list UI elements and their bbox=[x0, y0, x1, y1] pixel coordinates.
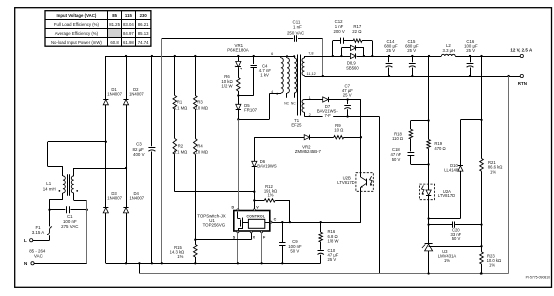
wire transformer pin4 to drain bbox=[238, 94, 281, 120]
diode D2 1N4007 bbox=[123, 56, 144, 168]
svg-text:5.1 MΩ: 5.1 MΩ bbox=[174, 105, 188, 110]
terminal L bbox=[24, 238, 50, 244]
svg-text:1%: 1% bbox=[177, 254, 183, 259]
svg-text:R2: R2 bbox=[178, 144, 184, 149]
svg-text:25 V: 25 V bbox=[466, 48, 475, 53]
svg-text:ZMM5245B-7: ZMM5245B-7 bbox=[295, 149, 322, 154]
svg-text:N: N bbox=[24, 261, 28, 267]
svg-text:Input Voltage (VAC): Input Voltage (VAC) bbox=[57, 13, 97, 18]
svg-text:4: 4 bbox=[271, 90, 273, 94]
svg-text:10 MΩ: 10 MΩ bbox=[196, 105, 208, 110]
inductor L2 3.3uH bbox=[441, 43, 455, 56]
svg-text:85.13: 85.13 bbox=[138, 31, 149, 36]
pin D bbox=[232, 206, 239, 211]
wire choke left top to bridge AC1 bbox=[48, 142, 106, 177]
svg-text:3.15 A: 3.15 A bbox=[32, 230, 45, 235]
resistor R15 14.3k bbox=[170, 240, 197, 264]
capacitor C1 bbox=[50, 206, 88, 229]
svg-text:Average Efficiency (%): Average Efficiency (%) bbox=[55, 31, 99, 36]
svg-text:1N4007: 1N4007 bbox=[129, 91, 144, 96]
svg-text:230: 230 bbox=[140, 13, 148, 18]
wire Y-cap to secondary RTN bbox=[322, 39, 324, 77]
primary ground bus wire bbox=[106, 262, 321, 264]
wire U3 ref to divider bbox=[429, 245, 483, 247]
diode D7 BAV21WS bbox=[304, 97, 361, 118]
capacitor C15 680uF bbox=[405, 39, 419, 76]
svg-text:1/2 W: 1/2 W bbox=[221, 84, 233, 89]
wire drain bbox=[238, 119, 240, 209]
diode D1 1N4007 bbox=[103, 56, 122, 142]
capacitor C10 47uF bbox=[318, 242, 339, 263]
svg-text:PI-5775-090810: PI-5775-090810 bbox=[526, 276, 550, 280]
svg-text:74.74: 74.74 bbox=[138, 40, 149, 45]
resistor R19 470 ohm bbox=[427, 121, 446, 165]
svg-text:NC: NC bbox=[291, 102, 296, 106]
svg-text:1 nF: 1 nF bbox=[293, 25, 302, 30]
capacitor C20 33nF bbox=[429, 222, 482, 242]
RTN rail wire bbox=[304, 75, 521, 77]
snubber C12 R17 bbox=[333, 19, 373, 56]
svg-text:1 kV: 1 kV bbox=[260, 72, 269, 77]
capacitor C4 4.7nF 1kV bbox=[238, 56, 271, 96]
shunt regulator U3 LMV431A bbox=[422, 225, 457, 274]
pin F bbox=[261, 231, 266, 263]
wire R1-R2 bbox=[174, 109, 176, 139]
wire bias return pin2 bbox=[304, 117, 379, 274]
resistor R16 6.8 ohm bbox=[319, 222, 339, 243]
svg-text:12 V, 2.5 A: 12 V, 2.5 A bbox=[510, 48, 533, 53]
svg-text:No-load Input Power (mW): No-load Input Power (mW) bbox=[51, 40, 102, 45]
svg-text:C: C bbox=[274, 218, 277, 222]
svg-text:25 V: 25 V bbox=[407, 48, 416, 53]
svg-text:22 Ω: 22 Ω bbox=[352, 29, 362, 34]
capacitor C3 bbox=[133, 56, 156, 263]
svg-text:L: L bbox=[24, 238, 27, 244]
wire choke right bottom to N bbox=[74, 193, 87, 263]
svg-text:25 V: 25 V bbox=[386, 48, 395, 53]
svg-text:FR107: FR107 bbox=[244, 108, 258, 113]
HV+ rail wire bbox=[106, 55, 295, 57]
svg-text:1N4007: 1N4007 bbox=[107, 196, 122, 201]
optocoupler U2A LTV817D bbox=[420, 164, 456, 273]
svg-text:275 VAC: 275 VAC bbox=[61, 224, 78, 229]
svg-text:50 V: 50 V bbox=[452, 236, 461, 241]
svg-text:83.04: 83.04 bbox=[123, 22, 134, 27]
svg-text:14 mH: 14 mH bbox=[43, 186, 56, 191]
svg-text:R4: R4 bbox=[197, 144, 203, 149]
wire secondary return lower bus bbox=[139, 76, 508, 275]
svg-text:RTN: RTN bbox=[518, 81, 527, 86]
resistor R6 10k 1/2W bbox=[221, 74, 240, 104]
TVS VR1 P6KE180A bbox=[227, 43, 249, 78]
wire choke right top to bridge AC2 bbox=[74, 168, 127, 176]
diode D5 FR107 bbox=[236, 103, 258, 120]
diode D3 1N4007 bbox=[103, 191, 122, 263]
svg-text:1N4007: 1N4007 bbox=[129, 196, 144, 201]
pin C bbox=[270, 218, 277, 223]
svg-text:1/8 W: 1/8 W bbox=[328, 238, 339, 243]
diode D4 1N4007 bbox=[123, 191, 144, 263]
svg-text:CONTROL: CONTROL bbox=[247, 214, 266, 218]
efficiency table bbox=[45, 11, 151, 47]
pin S bbox=[233, 231, 239, 263]
pin X bbox=[194, 231, 255, 241]
svg-text:LL4148: LL4148 bbox=[444, 168, 459, 173]
fuse F1 bbox=[32, 210, 52, 240]
node AC2 bbox=[125, 167, 127, 207]
node AC1 bbox=[105, 141, 107, 208]
svg-text:R1: R1 bbox=[177, 99, 183, 104]
wire feedback from 12V rail bbox=[427, 56, 429, 122]
svg-text:7-F: 7-F bbox=[325, 113, 332, 118]
svg-text:470 Ω: 470 Ω bbox=[434, 146, 445, 151]
terminal 12V output bbox=[510, 48, 533, 58]
svg-text:Full Load Efficiency (%): Full Load Efficiency (%) bbox=[54, 22, 100, 27]
svg-text:1%: 1% bbox=[444, 258, 450, 263]
IC U1 TOPSwitch-JX TOP256VG bbox=[197, 211, 270, 232]
svg-text:NC: NC bbox=[284, 102, 289, 106]
svg-text:6: 6 bbox=[271, 52, 273, 56]
svg-text:TOP256VG: TOP256VG bbox=[203, 223, 226, 228]
resistor R9 10 ohm bbox=[334, 123, 361, 139]
resistor R21 86.6k bbox=[480, 56, 503, 226]
svg-text:1%: 1% bbox=[490, 169, 496, 174]
svg-text:50 V: 50 V bbox=[290, 248, 299, 253]
svg-text:25 V: 25 V bbox=[343, 92, 352, 97]
wire L to choke bbox=[48, 199, 63, 211]
svg-text:1%: 1% bbox=[489, 263, 495, 268]
diode D8 SB560 parallel bbox=[341, 45, 364, 70]
wire line-sense to V pin bbox=[175, 191, 256, 193]
optocoupler U2B LTV817D bbox=[337, 137, 373, 222]
svg-text:1N4007: 1N4007 bbox=[107, 91, 122, 96]
svg-text:115: 115 bbox=[125, 13, 133, 18]
resistor R12 191k bbox=[253, 184, 290, 222]
svg-text:250 VAC: 250 VAC bbox=[287, 30, 304, 35]
capacitor C16 100uF bbox=[464, 39, 478, 76]
capacitor C18 47nF bbox=[391, 147, 430, 166]
zener VR2 ZMM5245B-7 bbox=[254, 135, 333, 154]
svg-text:1%: 1% bbox=[267, 193, 273, 198]
svg-text:10 Ω: 10 Ω bbox=[334, 127, 344, 132]
capacitor C9 100nF bbox=[279, 222, 302, 263]
wire R3-R4 bbox=[195, 109, 197, 139]
svg-text:85: 85 bbox=[112, 13, 117, 18]
svg-text:200 V: 200 V bbox=[333, 29, 344, 34]
diode D10 LL4148 bbox=[429, 119, 483, 219]
svg-text:81.25: 81.25 bbox=[109, 22, 120, 27]
svg-text:LTV817D: LTV817D bbox=[438, 193, 455, 198]
svg-text:3.3 µH: 3.3 µH bbox=[443, 48, 456, 53]
svg-text:10 MΩ: 10 MΩ bbox=[196, 150, 208, 155]
svg-text:11,12: 11,12 bbox=[307, 72, 316, 76]
diode D9 SB560 inline bbox=[350, 53, 355, 58]
label 85-264 VAC bbox=[29, 248, 46, 258]
capacitor C11 safety Y bbox=[287, 20, 323, 42]
resistor R18 110 ohm bbox=[392, 121, 428, 152]
drawing number bbox=[526, 276, 550, 280]
pin V bbox=[253, 200, 259, 210]
svg-text:50 V: 50 V bbox=[392, 157, 401, 162]
wire bias+ down to R9 node bbox=[360, 100, 362, 139]
svg-text:61.98: 61.98 bbox=[123, 40, 134, 45]
svg-text:7,8: 7,8 bbox=[308, 52, 313, 56]
12V rail wire bbox=[304, 55, 521, 57]
svg-text:25 V: 25 V bbox=[328, 257, 337, 262]
terminal N bbox=[24, 261, 87, 267]
svg-text:EF25: EF25 bbox=[291, 123, 302, 128]
diode D6 BAV19WS bbox=[252, 137, 277, 209]
resistor R4 10 Mohm bbox=[194, 139, 208, 240]
transformer T1 EF25 bbox=[271, 52, 316, 128]
svg-text:P6KE180A: P6KE180A bbox=[227, 48, 249, 53]
capacitor C7 47uF bbox=[342, 83, 353, 117]
common-mode choke L1 bbox=[43, 174, 78, 199]
resistor R2 5.1 Mohm bbox=[173, 139, 187, 192]
svg-text:LTV817D: LTV817D bbox=[337, 180, 354, 185]
svg-text:D: D bbox=[232, 206, 235, 210]
svg-text:60.8: 60.8 bbox=[110, 40, 119, 45]
resistor R1 5.1 Mohm bbox=[173, 56, 187, 110]
svg-text:R3: R3 bbox=[197, 99, 203, 104]
svg-text:VAC: VAC bbox=[34, 253, 43, 258]
wire C pin line bbox=[272, 221, 361, 223]
svg-text:5.1 MΩ: 5.1 MΩ bbox=[174, 150, 188, 155]
svg-text:86.21: 86.21 bbox=[138, 22, 149, 27]
terminal RTN bbox=[518, 74, 527, 86]
svg-text:SB560: SB560 bbox=[346, 66, 359, 71]
svg-text:84.97: 84.97 bbox=[123, 31, 134, 36]
capacitor C14 680uF bbox=[384, 39, 398, 76]
svg-text:BAV19WS: BAV19WS bbox=[257, 164, 277, 169]
resistor R23 10.0k bbox=[480, 225, 501, 275]
resistor R3 10 Mohm bbox=[194, 56, 208, 110]
svg-text:400 V: 400 V bbox=[133, 152, 145, 157]
wire Y-cap branch from primary ground bbox=[162, 39, 294, 264]
svg-text:110 Ω: 110 Ω bbox=[392, 136, 403, 141]
